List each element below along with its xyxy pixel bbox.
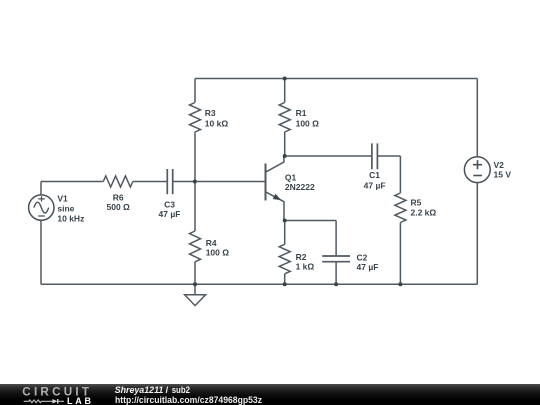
wire R4 bottom lead <box>194 262 196 285</box>
svg-text:Q1: Q1 <box>285 172 297 182</box>
svg-text:sine: sine <box>57 204 74 214</box>
svg-text:R5: R5 <box>411 197 422 207</box>
wire V2 top lead <box>476 79 478 157</box>
svg-text:C1: C1 <box>369 170 380 180</box>
svg-text:10 kHz: 10 kHz <box>57 213 84 223</box>
wire R1 bottom lead <box>284 132 286 156</box>
svg-text:2.2 kΩ: 2.2 kΩ <box>411 208 437 218</box>
svg-text:1 kΩ: 1 kΩ <box>296 262 315 272</box>
node collector <box>283 154 287 158</box>
wire R3 top lead <box>194 79 196 103</box>
wire R4 top lead <box>194 182 196 232</box>
wire R5 top lead <box>399 156 401 193</box>
node R2 bottom <box>283 282 287 286</box>
svg-text:100 Ω: 100 Ω <box>296 119 320 129</box>
resistor R6 <box>103 176 132 187</box>
wire V1 top lead <box>40 182 42 196</box>
wire C2 bottom lead <box>335 262 337 285</box>
wire C1 to R5 <box>377 155 400 157</box>
capacitor C1 <box>372 143 378 169</box>
node emitter <box>283 219 287 223</box>
svg-text:R2: R2 <box>296 252 307 262</box>
capacitor C2 <box>322 256 350 262</box>
svg-text:/: / <box>166 385 169 395</box>
node C3/R3/R4/base junction <box>193 180 197 184</box>
wire R2 top lead <box>284 221 286 245</box>
logo resistor-diode symbol <box>24 395 92 405</box>
wire bottom rail <box>41 283 477 285</box>
wire V1 bottom lead <box>40 220 42 284</box>
svg-text:V1: V1 <box>57 194 68 204</box>
svg-text:LAB: LAB <box>67 395 92 405</box>
svg-text:47 µF: 47 µF <box>159 209 181 219</box>
svg-text:V2: V2 <box>494 160 505 170</box>
capacitor C3 <box>167 169 172 194</box>
wire R6 to C3 <box>133 181 168 183</box>
wire R2 bottom lead <box>284 274 286 285</box>
wire top rail <box>195 78 477 80</box>
svg-text:R1: R1 <box>296 108 307 118</box>
wire R1 top lead <box>284 79 286 103</box>
svg-text:Shreya1211: Shreya1211 <box>115 385 164 395</box>
wire C2 top lead <box>335 221 337 257</box>
svg-text:sub2: sub2 <box>172 385 190 395</box>
resistor R1 <box>279 103 290 132</box>
svg-text:C2: C2 <box>357 252 368 262</box>
svg-text:47 µF: 47 µF <box>357 262 379 272</box>
resistor R5 <box>395 193 406 222</box>
svg-text:47 µF: 47 µF <box>364 180 386 190</box>
node R5 bottom <box>398 282 402 286</box>
node ground junction <box>193 282 197 286</box>
svg-text:10 kΩ: 10 kΩ <box>205 119 229 129</box>
footer bar <box>0 384 540 405</box>
resistor R3 <box>190 103 201 132</box>
svg-text:R4: R4 <box>206 238 217 248</box>
node R1 top rail junction <box>283 77 287 81</box>
wire R5 bottom lead <box>399 223 401 285</box>
svg-text:15 V: 15 V <box>494 170 512 180</box>
source V2 <box>464 157 490 183</box>
svg-text:R3: R3 <box>205 108 216 118</box>
svg-text:C3: C3 <box>164 199 175 209</box>
resistor R2 <box>279 244 290 274</box>
svg-text:500 Ω: 500 Ω <box>107 202 131 212</box>
wire ground stub <box>194 284 196 295</box>
resistor R4 <box>190 231 201 262</box>
svg-text:2N2222: 2N2222 <box>285 182 315 192</box>
wire V2 bottom lead <box>476 183 478 285</box>
ground <box>185 295 206 306</box>
wire emitter to C2 <box>285 220 336 222</box>
wire R3 bottom lead <box>194 132 196 182</box>
source V1 <box>29 195 54 220</box>
wire C3 to Q1 base <box>173 181 266 183</box>
svg-text:100 Ω: 100 Ω <box>206 248 230 258</box>
node C2 bottom <box>334 282 338 286</box>
svg-text:http://circuitlab.com/cz874968: http://circuitlab.com/cz874968gp53z <box>115 395 262 405</box>
wire V1 to R6 <box>41 181 103 183</box>
transistor Q1 <box>266 156 285 221</box>
wire collector to C1 <box>285 155 372 157</box>
